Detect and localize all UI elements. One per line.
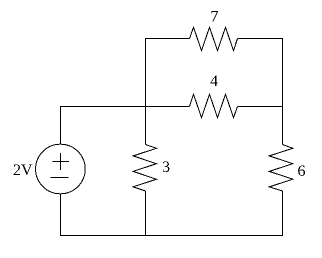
resistor R3 zigzag (vertical) [133, 145, 156, 192]
wire top-right horizontal lead (from R7) [238, 38, 284, 40]
wire middle horizontal left lead (source top to R4) [60, 106, 190, 108]
svg-text:2V: 2V [13, 162, 33, 179]
resistor R6 zigzag (vertical) [269, 145, 293, 192]
svg-text:4: 4 [210, 73, 218, 90]
voltage source minus sign [50, 177, 68, 179]
wire R3 bottom lead [145, 191, 147, 236]
resistor R4 zigzag [190, 94, 238, 118]
wire left leg of top loop (node A down to R3 top) [145, 38, 147, 145]
wire bottom horizontal [60, 235, 283, 237]
voltage source plus sign [52, 161, 69, 163]
wire top-left horizontal lead (to R7) [145, 38, 190, 40]
wire source top lead [60, 106, 62, 144]
wire right leg of top loop (down to R6 top) [282, 38, 284, 145]
voltage source V1 circle [36, 144, 86, 194]
svg-text:7: 7 [211, 9, 219, 26]
wire source bottom lead [60, 193, 62, 236]
wire middle horizontal right lead (R4 to right leg) [238, 106, 283, 108]
wire R6 bottom lead [282, 191, 284, 236]
svg-text:3: 3 [162, 159, 170, 176]
svg-text:6: 6 [298, 163, 306, 180]
resistor R7 zigzag [190, 27, 238, 51]
